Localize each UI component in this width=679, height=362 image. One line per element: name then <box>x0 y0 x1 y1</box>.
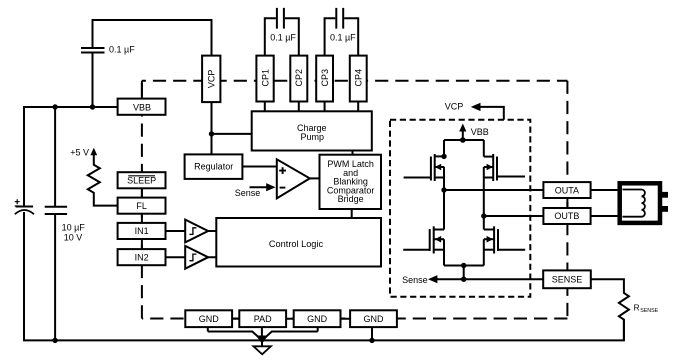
svg-text:OUTB: OUTB <box>554 211 579 221</box>
svg-text:10 V: 10 V <box>64 232 83 242</box>
svg-text:SLEEP: SLEEP <box>127 176 156 186</box>
svg-text:FL: FL <box>136 201 147 211</box>
svg-text:0.1 µF: 0.1 µF <box>270 32 296 42</box>
svg-text:Regulator: Regulator <box>194 162 233 172</box>
svg-text:GND: GND <box>307 314 328 324</box>
svg-text:VCP: VCP <box>207 70 217 89</box>
svg-text:VBB: VBB <box>471 127 489 137</box>
svg-text:CP2: CP2 <box>294 69 304 87</box>
svg-text:CP4: CP4 <box>354 69 364 87</box>
svg-text:Sense: Sense <box>402 275 428 285</box>
svg-text:Bridge: Bridge <box>338 194 364 204</box>
svg-text:SENSE: SENSE <box>640 308 658 314</box>
svg-text:GND: GND <box>364 314 385 324</box>
svg-text:Control Logic: Control Logic <box>269 239 324 249</box>
svg-text:VBB: VBB <box>133 102 151 112</box>
svg-text:PAD: PAD <box>254 314 272 324</box>
svg-text:OUTA: OUTA <box>555 185 579 195</box>
svg-text:CP1: CP1 <box>260 69 270 87</box>
svg-text:0.1 µF: 0.1 µF <box>330 32 356 42</box>
svg-text:0.1 µF: 0.1 µF <box>109 45 135 55</box>
svg-text:Sense: Sense <box>235 188 261 198</box>
svg-text:SENSE: SENSE <box>552 275 583 285</box>
svg-text:10 µF: 10 µF <box>62 222 86 232</box>
svg-text:VCP: VCP <box>445 102 464 112</box>
svg-text:IN1: IN1 <box>135 226 149 236</box>
svg-text:GND: GND <box>199 314 220 324</box>
svg-text:+5 V: +5 V <box>70 147 89 157</box>
svg-text:IN2: IN2 <box>135 252 149 262</box>
svg-text:Pump: Pump <box>301 132 325 142</box>
svg-text:CP3: CP3 <box>320 69 330 87</box>
svg-text:R: R <box>634 303 640 313</box>
